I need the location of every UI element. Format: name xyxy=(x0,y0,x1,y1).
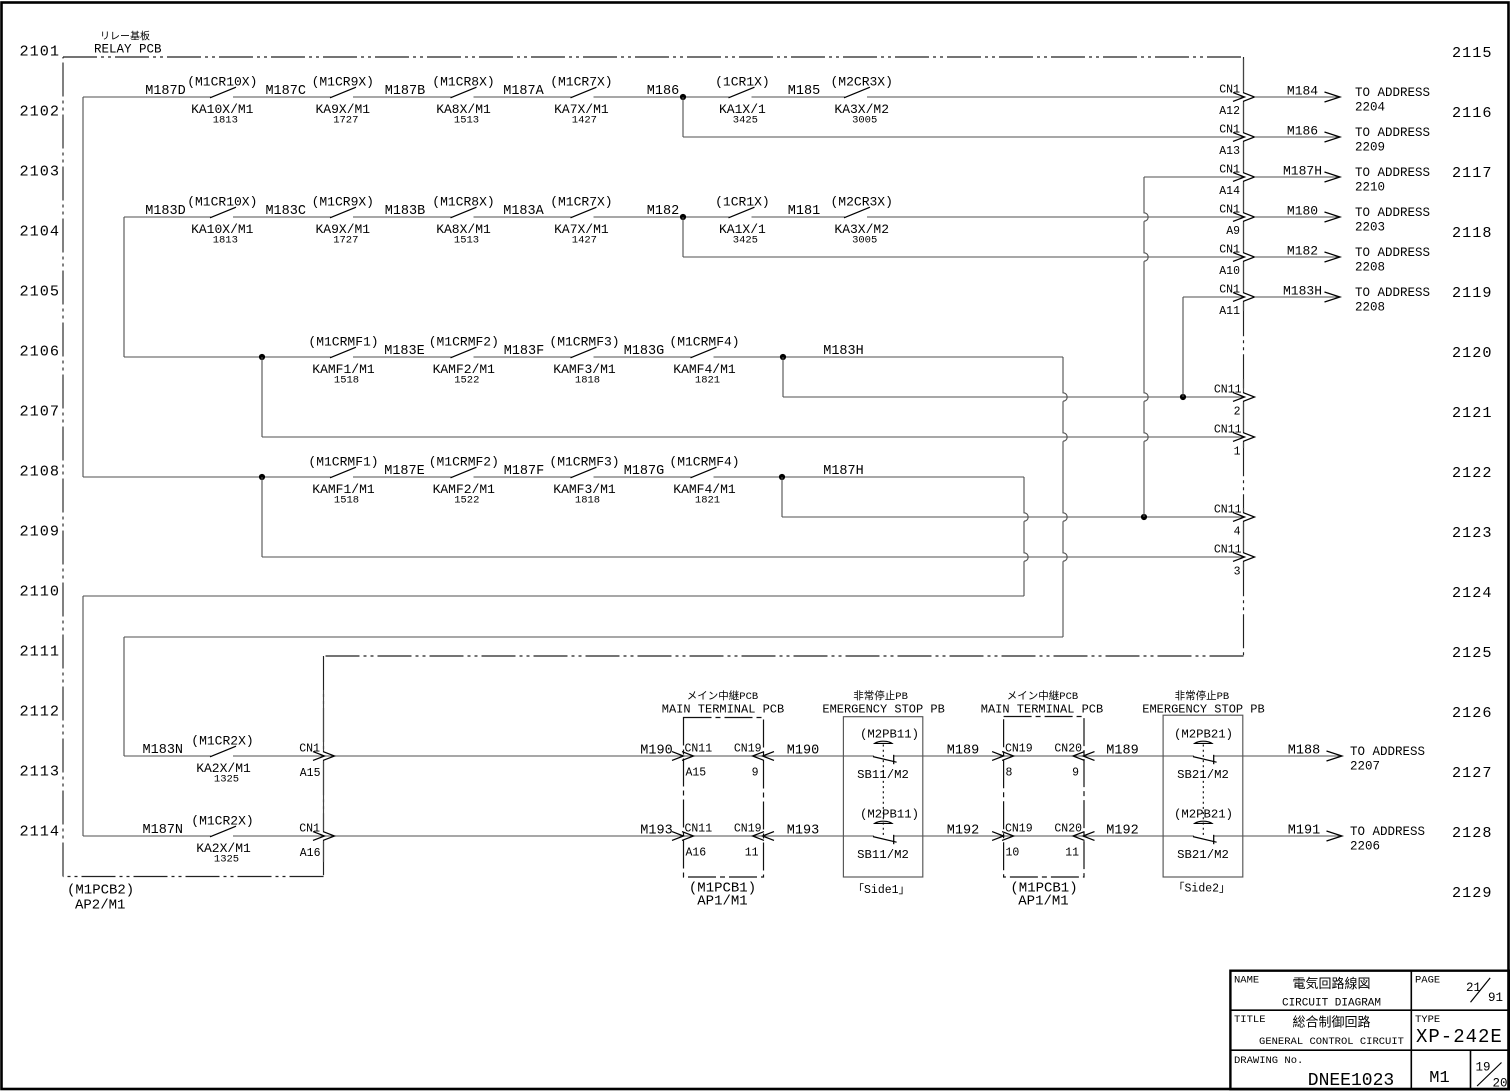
svg-text:2106: 2106 xyxy=(20,343,60,361)
svg-text:CIRCUIT DIAGRAM: CIRCUIT DIAGRAM xyxy=(1282,998,1381,1010)
wire row A13 (M186) y=137 xyxy=(683,136,1244,138)
wire M182 to address 2208 xyxy=(1255,256,1341,258)
svg-text:(M2CR3X): (M2CR3X) xyxy=(830,75,892,90)
wire row A11 (M183H) y=297 xyxy=(1183,296,1244,298)
svg-text:(M2PB11): (M2PB11) xyxy=(860,728,919,742)
connector column A15/A16 solid segments xyxy=(323,690,325,862)
svg-text:A14: A14 xyxy=(1219,185,1240,198)
svg-text:M192: M192 xyxy=(947,824,979,839)
svg-text:M190: M190 xyxy=(787,744,819,759)
contact KAMF1/M1 (M1CRMF1) row y=477 xyxy=(330,467,356,478)
wire row 2102 (M187 chain) y=97 xyxy=(83,96,1244,98)
svg-text:A16: A16 xyxy=(686,847,707,860)
svg-text:(M1CRMF2): (M1CRMF2) xyxy=(429,335,499,350)
svg-text:A12: A12 xyxy=(1219,105,1240,118)
connector CN20 pin 11 (terminal PCB2 right) xyxy=(1073,832,1095,841)
contact KA7X/M1 (M1CR7X) row y=217 xyxy=(571,207,597,218)
contact KA3X/M2 (M2CR3X) row y=217 xyxy=(844,207,870,218)
svg-text:SB21/M2: SB21/M2 xyxy=(1177,848,1229,862)
svg-text:SB11/M2: SB11/M2 xyxy=(857,768,909,782)
svg-text:2126: 2126 xyxy=(1452,704,1492,722)
wire row 2106 (M183 MF chain) y=357 xyxy=(124,356,1063,358)
wire row CN11 pin2 (M183H) y=397 xyxy=(783,396,1244,398)
svg-text:A16: A16 xyxy=(300,847,321,860)
svg-text:TO ADDRESS: TO ADDRESS xyxy=(1355,206,1430,220)
contact KA8X/M1 (M1CR8X) row y=217 xyxy=(451,207,477,218)
svg-text:2: 2 xyxy=(1234,406,1241,419)
svg-text:2101: 2101 xyxy=(20,43,60,61)
svg-text:M180: M180 xyxy=(1287,204,1318,219)
svg-text:M193: M193 xyxy=(787,824,819,839)
svg-text:1522: 1522 xyxy=(454,495,479,507)
svg-text:CN11: CN11 xyxy=(1214,544,1242,557)
svg-text:1727: 1727 xyxy=(333,115,358,127)
wire M184 to address 2204 xyxy=(1255,96,1341,98)
svg-text:2208: 2208 xyxy=(1355,301,1385,315)
svg-text:リレー基板: リレー基板 xyxy=(100,30,150,44)
svg-text:CN1: CN1 xyxy=(1219,284,1240,297)
wire row M187N y=836 xyxy=(83,835,874,837)
svg-text:TO ADDRESS: TO ADDRESS xyxy=(1355,126,1430,140)
svg-text:M191: M191 xyxy=(1288,824,1320,839)
svg-text:M187N: M187N xyxy=(143,823,184,838)
svg-text:XP-242E: XP-242E xyxy=(1416,1026,1503,1048)
svg-text:M187C: M187C xyxy=(265,84,306,99)
wire row M183N y=756 xyxy=(124,755,874,757)
svg-text:M183G: M183G xyxy=(624,344,665,359)
wire branch M182 down to A10 row xyxy=(682,217,684,257)
pushbutton NC contact SB11/M2 (M2PB11) y=836 xyxy=(875,821,892,823)
svg-text:(1CR1X): (1CR1X) xyxy=(715,75,770,90)
svg-text:2208: 2208 xyxy=(1355,261,1385,275)
svg-text:1427: 1427 xyxy=(572,115,597,127)
svg-text:3: 3 xyxy=(1234,566,1241,579)
svg-text:2129: 2129 xyxy=(1452,884,1492,902)
svg-text:A11: A11 xyxy=(1219,305,1240,318)
wire row 2110 (M187H return) y=596 xyxy=(83,595,1024,597)
svg-text:(M1PCB2): (M1PCB2) xyxy=(67,883,134,899)
svg-text:M181: M181 xyxy=(788,204,820,219)
contact KAMF3/M1 (M1CRMF3) row y=357 xyxy=(571,347,597,358)
svg-text:1818: 1818 xyxy=(575,495,600,507)
svg-text:A10: A10 xyxy=(1219,265,1240,278)
svg-text:M193: M193 xyxy=(640,824,672,839)
svg-text:CN1: CN1 xyxy=(1219,84,1240,97)
svg-text:(M1CR9X): (M1CR9X) xyxy=(312,75,374,90)
pushbutton NC contact SB11/M2 (M2PB11) y=756 xyxy=(875,741,892,743)
svg-text:2117: 2117 xyxy=(1452,164,1492,182)
svg-text:9: 9 xyxy=(752,767,759,780)
MAIN TERMINAL PCB box 2 (M1PCB1 AP1/M1) xyxy=(1004,717,1084,878)
svg-text:M187H: M187H xyxy=(823,464,864,479)
svg-text:TO ADDRESS: TO ADDRESS xyxy=(1355,286,1430,300)
EMERGENCY STOP PB box 2 (Side2) xyxy=(1163,715,1243,877)
svg-text:M183A: M183A xyxy=(503,204,544,219)
svg-text:1821: 1821 xyxy=(695,375,720,387)
svg-text:2123: 2123 xyxy=(1452,524,1492,542)
wire M187H vertical x=1024 down to row 2110 xyxy=(1024,477,1028,596)
svg-text:メイン中継PCB: メイン中継PCB xyxy=(1007,689,1078,703)
svg-text:M185: M185 xyxy=(788,84,820,99)
svg-text:M187F: M187F xyxy=(504,464,545,479)
connector CN11 pin A16 (terminal PCB1 left) xyxy=(672,832,694,841)
svg-text:M182: M182 xyxy=(1287,244,1318,259)
svg-text:2204: 2204 xyxy=(1355,101,1385,115)
svg-text:M187G: M187G xyxy=(624,464,665,479)
node CN11 pin4 / A14 junction xyxy=(1141,514,1147,520)
wire row A14 (M187H) y=177 xyxy=(1144,176,1244,178)
svg-text:(M1CR7X): (M1CR7X) xyxy=(550,195,612,210)
svg-text:3425: 3425 xyxy=(733,235,758,247)
svg-text:M187B: M187B xyxy=(385,84,426,99)
svg-text:M183H: M183H xyxy=(823,344,864,359)
svg-text:1727: 1727 xyxy=(333,235,358,247)
svg-text:2111: 2111 xyxy=(20,643,60,661)
svg-text:CN1: CN1 xyxy=(1219,244,1240,257)
svg-text:A15: A15 xyxy=(686,767,707,780)
svg-text:CN19: CN19 xyxy=(1005,823,1033,836)
svg-text:2112: 2112 xyxy=(20,703,60,721)
svg-text:2210: 2210 xyxy=(1355,181,1385,195)
svg-text:A9: A9 xyxy=(1226,225,1240,238)
svg-text:3005: 3005 xyxy=(852,115,877,127)
svg-text:CN20: CN20 xyxy=(1054,823,1082,836)
svg-text:AP1/M1: AP1/M1 xyxy=(697,894,747,910)
svg-text:(M1CR10X): (M1CR10X) xyxy=(187,75,257,90)
contact KAMF2/M1 (M1CRMF2) row y=477 xyxy=(451,467,477,478)
svg-text:NAME: NAME xyxy=(1234,975,1259,987)
svg-text:(M1CRMF1): (M1CRMF1) xyxy=(308,335,378,350)
RELAY PCB boundary (dash-dot box) xyxy=(63,56,1244,58)
wire M183H to address 2208 xyxy=(1255,296,1341,298)
node row2108 right junction xyxy=(779,474,785,480)
svg-text:19: 19 xyxy=(1475,1061,1490,1075)
MAIN TERMINAL PCB box 1 (M1PCB1 AP1/M1) xyxy=(684,718,764,878)
svg-text:CN11: CN11 xyxy=(685,743,713,756)
svg-text:SB21/M2: SB21/M2 xyxy=(1177,768,1229,782)
svg-text:2108: 2108 xyxy=(20,463,60,481)
svg-text:TITLE: TITLE xyxy=(1234,1014,1266,1026)
connector CN1 pin A13 xyxy=(1233,133,1255,142)
svg-text:M190: M190 xyxy=(640,744,672,759)
svg-text:M189: M189 xyxy=(947,744,979,759)
svg-text:(M2PB21): (M2PB21) xyxy=(1174,728,1233,742)
connector CN11 pin 4 xyxy=(1233,513,1255,522)
svg-text:(M1CRMF3): (M1CRMF3) xyxy=(549,335,619,350)
svg-text:TO ADDRESS: TO ADDRESS xyxy=(1355,246,1430,260)
connector column CN1 (right, solid segments) xyxy=(1243,59,1245,311)
pushbutton NC contact SB21/M2 (M2PB21) y=836 xyxy=(1195,821,1212,823)
svg-text:M186: M186 xyxy=(1287,124,1318,139)
pushbutton NC contact SB21/M2 (M2PB21) y=756 xyxy=(1195,741,1212,743)
svg-text:A13: A13 xyxy=(1219,145,1240,158)
wire row 2104 (M183 chain) y=217 xyxy=(124,216,1244,218)
contact KA10X/M1 (M1CR10X) row y=97 xyxy=(210,87,236,98)
svg-text:(M1CRMF2): (M1CRMF2) xyxy=(429,455,499,470)
svg-text:M187A: M187A xyxy=(503,84,544,99)
svg-text:PAGE: PAGE xyxy=(1415,975,1440,987)
svg-text:2119: 2119 xyxy=(1452,284,1492,302)
svg-text:2116: 2116 xyxy=(1452,104,1492,122)
wire M180 to address 2203 xyxy=(1255,216,1341,218)
svg-text:MAIN TERMINAL PCB: MAIN TERMINAL PCB xyxy=(662,703,784,717)
svg-text:M192: M192 xyxy=(1106,824,1138,839)
svg-text:1813: 1813 xyxy=(213,235,238,247)
svg-text:(M1CR8X): (M1CR8X) xyxy=(432,75,494,90)
svg-text:CN1: CN1 xyxy=(1219,204,1240,217)
svg-text:M188: M188 xyxy=(1288,744,1320,759)
svg-text:2122: 2122 xyxy=(1452,464,1492,482)
wire row CN11 pin1 y=437 xyxy=(262,436,1244,438)
wire branch M186 down to A13 row xyxy=(682,97,684,137)
svg-text:2103: 2103 xyxy=(20,163,60,181)
svg-text:CN11: CN11 xyxy=(1214,424,1242,437)
svg-text:CN11: CN11 xyxy=(685,823,713,836)
connector CN11 pin A15 (terminal PCB1 left) xyxy=(672,752,694,761)
connector CN1 pin A14 xyxy=(1233,173,1255,182)
svg-text:CN19: CN19 xyxy=(1005,743,1033,756)
svg-text:2206: 2206 xyxy=(1350,840,1380,854)
pushbutton SB11/M2 mechanical link (dotted) xyxy=(882,745,884,838)
connector CN1 pin A15 xyxy=(313,752,335,761)
svg-text:2203: 2203 xyxy=(1355,221,1385,235)
svg-text:MAIN TERMINAL PCB: MAIN TERMINAL PCB xyxy=(981,703,1103,717)
node CN11 pin2 / A11 junction xyxy=(1180,394,1186,400)
contact KAMF3/M1 (M1CRMF3) row y=477 xyxy=(571,467,597,478)
svg-text:CN11: CN11 xyxy=(1214,384,1242,397)
connector CN19 pin 8 (terminal PCB2 left) xyxy=(992,752,1014,761)
svg-text:1522: 1522 xyxy=(454,375,479,387)
contact KA9X/M1 (M1CR9X) row y=97 xyxy=(330,87,356,98)
node row2106 left junction xyxy=(259,354,265,360)
connector CN19 pin 11 (terminal PCB1 right) xyxy=(753,832,775,841)
svg-text:3425: 3425 xyxy=(733,115,758,127)
svg-text:CN11: CN11 xyxy=(1214,504,1242,517)
svg-text:1821: 1821 xyxy=(695,495,720,507)
pushbutton SB21/M2 mechanical link (dotted) xyxy=(1202,745,1204,838)
svg-text:電気回路線図: 電気回路線図 xyxy=(1292,976,1370,992)
svg-text:91: 91 xyxy=(1488,991,1503,1005)
svg-text:2109: 2109 xyxy=(20,523,60,541)
connector CN20 pin 9 (terminal PCB2 right) xyxy=(1073,752,1095,761)
svg-text:(M1CR10X): (M1CR10X) xyxy=(187,195,257,210)
svg-text:「Side2」: 「Side2」 xyxy=(1173,882,1231,896)
contact KAMF2/M1 (M1CRMF2) row y=357 xyxy=(451,347,477,358)
wire row 2111 (M183H return) y=637 xyxy=(124,636,1063,638)
svg-text:8: 8 xyxy=(1006,767,1013,780)
wire row 2108 (M187 MF chain) y=477 xyxy=(83,476,1024,478)
svg-text:2118: 2118 xyxy=(1452,224,1492,242)
svg-text:20: 20 xyxy=(1492,1077,1507,1091)
svg-text:AP2/M1: AP2/M1 xyxy=(75,898,125,914)
wire left rail row2104 to row2106 xyxy=(123,217,125,357)
svg-text:CN1: CN1 xyxy=(299,743,320,756)
connector CN19 pin 9 (terminal PCB1 right) xyxy=(753,752,775,761)
contact KA3X/M2 (M2CR3X) row y=97 xyxy=(844,87,870,98)
node row2106 right junction xyxy=(780,354,786,360)
svg-text:1325: 1325 xyxy=(214,774,239,786)
svg-text:TO ADDRESS: TO ADDRESS xyxy=(1355,86,1430,100)
wire branch to CN11 pin2 row xyxy=(782,357,784,397)
svg-text:「Side1」: 「Side1」 xyxy=(853,883,911,897)
connector CN19 pin 10 (terminal PCB2 left) xyxy=(992,832,1014,841)
svg-text:10: 10 xyxy=(1006,847,1020,860)
svg-text:DRAWING No.: DRAWING No. xyxy=(1234,1055,1303,1067)
contact KAMF1/M1 (M1CRMF1) row y=357 xyxy=(330,347,356,358)
svg-text:TO ADDRESS: TO ADDRESS xyxy=(1355,166,1430,180)
svg-text:総合制御回路: 総合制御回路 xyxy=(1292,1015,1370,1031)
svg-text:11: 11 xyxy=(1065,847,1079,860)
svg-text:1325: 1325 xyxy=(214,854,239,866)
svg-text:GENERAL CONTROL CIRCUIT: GENERAL CONTROL CIRCUIT xyxy=(1259,1036,1404,1048)
svg-text:1518: 1518 xyxy=(334,375,359,387)
svg-text:EMERGENCY STOP PB: EMERGENCY STOP PB xyxy=(1142,703,1264,717)
svg-text:非常停止PB: 非常停止PB xyxy=(1175,689,1230,703)
svg-text:(M2PB11): (M2PB11) xyxy=(860,808,919,822)
connector CN11 pin 1 xyxy=(1233,433,1255,442)
connector CN1 pin A16 xyxy=(313,832,335,841)
svg-text:2104: 2104 xyxy=(20,223,60,241)
wire row M193/M192/M191 (y=836) through terminal and e-stop PCBs xyxy=(894,835,1194,837)
contact KA7X/M1 (M1CR7X) row y=97 xyxy=(571,87,597,98)
svg-text:(M1CRMF1): (M1CRMF1) xyxy=(308,455,378,470)
svg-text:M182: M182 xyxy=(647,204,679,219)
svg-text:M183N: M183N xyxy=(143,743,184,758)
svg-text:M1: M1 xyxy=(1429,1069,1449,1088)
wire M183H riser x=1183 (A11 to CN11 pin2) xyxy=(1182,297,1184,397)
svg-text:2207: 2207 xyxy=(1350,760,1380,774)
svg-text:TYPE: TYPE xyxy=(1415,1014,1440,1026)
svg-text:3005: 3005 xyxy=(852,235,877,247)
arrow to address 2206 xyxy=(1327,831,1343,841)
wire M186 to address 2209 xyxy=(1255,136,1341,138)
connector CN1 pin A12 xyxy=(1233,93,1255,102)
svg-text:CN1: CN1 xyxy=(1219,124,1240,137)
svg-text:2125: 2125 xyxy=(1452,644,1492,662)
contact KAMF4/M1 (M1CRMF4) row y=357 xyxy=(691,347,717,358)
svg-text:2121: 2121 xyxy=(1452,404,1492,422)
svg-text:(M1CR8X): (M1CR8X) xyxy=(432,195,494,210)
wire row M190/M189/M188 (y=756) through terminal and e-stop PCBs xyxy=(894,755,1194,757)
svg-text:AP1/M1: AP1/M1 xyxy=(1018,894,1068,910)
svg-text:非常停止PB: 非常停止PB xyxy=(853,689,908,703)
wire M187H riser x=1144 (A14 to CN11 pin4) xyxy=(1144,177,1148,517)
svg-text:CN1: CN1 xyxy=(299,823,320,836)
svg-text:TO ADDRESS: TO ADDRESS xyxy=(1350,825,1425,839)
svg-text:4: 4 xyxy=(1234,526,1241,539)
svg-text:(1CR1X): (1CR1X) xyxy=(715,195,770,210)
svg-text:(M2PB21): (M2PB21) xyxy=(1174,808,1233,822)
wire M187H to address 2210 xyxy=(1255,176,1341,178)
svg-text:2105: 2105 xyxy=(20,283,60,301)
svg-text:2102: 2102 xyxy=(20,103,60,121)
svg-text:DNEE1023: DNEE1023 xyxy=(1308,1071,1394,1091)
contact KA10X/M1 (M1CR10X) row y=217 xyxy=(210,207,236,218)
node M186 junction xyxy=(680,94,686,100)
svg-text:A15: A15 xyxy=(300,767,321,780)
wire M183H vertical x=1063 down to row 2111 xyxy=(1063,357,1067,637)
svg-text:RELAY PCB: RELAY PCB xyxy=(94,43,162,57)
contact KA1X/1 (1CR1X) row y=217 xyxy=(729,207,755,218)
svg-text:M183B: M183B xyxy=(385,204,426,219)
svg-text:1513: 1513 xyxy=(454,235,479,247)
svg-text:M187D: M187D xyxy=(145,84,186,99)
svg-text:9: 9 xyxy=(1072,767,1079,780)
svg-text:1427: 1427 xyxy=(572,235,597,247)
svg-text:M183H: M183H xyxy=(1283,284,1322,299)
svg-text:M183D: M183D xyxy=(145,204,186,219)
wire row CN11 pin3 y=557 xyxy=(262,556,1244,558)
title block frame xyxy=(1230,971,1508,1089)
connector CN1 pin A9 xyxy=(1233,213,1255,222)
svg-text:SB11/M2: SB11/M2 xyxy=(857,848,909,862)
svg-text:2113: 2113 xyxy=(20,763,60,781)
contact KAMF4/M1 (M1CRMF4) row y=477 xyxy=(691,467,717,478)
svg-text:1813: 1813 xyxy=(213,115,238,127)
svg-text:1: 1 xyxy=(1234,446,1241,459)
svg-text:メイン中継PCB: メイン中継PCB xyxy=(687,689,758,703)
svg-text:(M1CR2X): (M1CR2X) xyxy=(191,814,253,829)
svg-text:CN20: CN20 xyxy=(1054,743,1082,756)
wire left rail row2102 to row2108 xyxy=(82,97,84,477)
svg-text:M189: M189 xyxy=(1106,744,1138,759)
wire left rail row2110 to M187N row xyxy=(82,596,84,836)
node row2108 left junction xyxy=(259,474,265,480)
svg-text:2110: 2110 xyxy=(20,583,60,601)
svg-text:CN19: CN19 xyxy=(734,823,762,836)
svg-text:(M1CR7X): (M1CR7X) xyxy=(550,75,612,90)
EMERGENCY STOP PB box 1 (Side1) xyxy=(843,717,922,877)
connector column CN11 solid segments xyxy=(1243,379,1245,570)
svg-text:M184: M184 xyxy=(1287,84,1318,99)
connector CN1 pin A10 xyxy=(1233,253,1255,262)
svg-text:(M1CRMF3): (M1CRMF3) xyxy=(549,455,619,470)
svg-text:1513: 1513 xyxy=(454,115,479,127)
connector CN11 pin 2 xyxy=(1233,393,1255,402)
svg-text:2115: 2115 xyxy=(1452,44,1492,62)
svg-text:CN1: CN1 xyxy=(1219,164,1240,177)
contact KA2X/M1 (M1CR2X) row M187N xyxy=(210,826,236,837)
wire branch to CN11 pin3 row xyxy=(261,477,263,557)
svg-text:(M1CRMF4): (M1CRMF4) xyxy=(669,335,739,350)
contact KA9X/M1 (M1CR9X) row y=217 xyxy=(330,207,356,218)
wire row A10 (M182) y=257 xyxy=(683,256,1244,258)
svg-text:M183E: M183E xyxy=(384,344,425,359)
svg-text:TO ADDRESS: TO ADDRESS xyxy=(1350,745,1425,759)
wire branch to CN11 pin1 row xyxy=(261,357,263,437)
svg-text:2124: 2124 xyxy=(1452,584,1492,602)
svg-text:M187H: M187H xyxy=(1283,164,1322,179)
contact KA8X/M1 (M1CR8X) row y=97 xyxy=(451,87,477,98)
connector CN11 pin 3 xyxy=(1233,553,1255,562)
arrow to address 2207 xyxy=(1327,751,1343,761)
svg-text:M183F: M183F xyxy=(504,344,545,359)
svg-text:1518: 1518 xyxy=(334,495,359,507)
svg-text:(M2CR3X): (M2CR3X) xyxy=(830,195,892,210)
svg-text:M186: M186 xyxy=(647,84,679,99)
svg-text:(M1CR2X): (M1CR2X) xyxy=(191,734,253,749)
wire left rail row2111 to M183N row xyxy=(123,637,125,756)
contact KA1X/1 (1CR1X) row y=97 xyxy=(729,87,755,98)
wire branch to CN11 pin4 row xyxy=(781,477,783,517)
svg-text:M183C: M183C xyxy=(265,204,306,219)
wire row CN11 pin4 (M187H) y=517 xyxy=(782,516,1244,518)
node M182 junction xyxy=(680,214,686,220)
svg-text:CN19: CN19 xyxy=(734,743,762,756)
svg-text:2114: 2114 xyxy=(20,823,60,841)
svg-text:1818: 1818 xyxy=(575,375,600,387)
svg-text:11: 11 xyxy=(745,847,759,860)
